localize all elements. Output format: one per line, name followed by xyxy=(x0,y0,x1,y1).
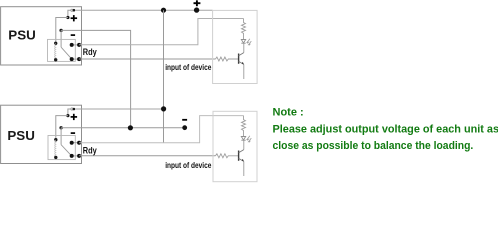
svg-text:Rdy: Rdy xyxy=(83,145,97,155)
relay K1 coil top dot xyxy=(54,42,57,45)
wire: vertical from + rail to bottom section xyxy=(163,10,165,143)
device 1 box xyxy=(213,10,258,83)
device 2 box xyxy=(213,111,257,181)
relay K1 box xyxy=(48,39,76,61)
node: junction dot + rail U2 xyxy=(161,106,166,111)
node: junction on + rail xyxy=(161,8,166,13)
relay K1 coil xyxy=(55,44,56,60)
PSU U1 + terminal circle xyxy=(71,9,73,11)
resistor R1 (series base, device 1) xyxy=(216,57,239,61)
wire: PSU U2 + internal xyxy=(68,109,71,115)
wire: top + rail xyxy=(75,9,212,11)
wire: - bus to load - terminal xyxy=(61,127,185,129)
relay K1 bottom contacts xyxy=(72,58,79,60)
LED D1 xyxy=(241,40,245,44)
wire: + to relay coil K1 xyxy=(56,18,68,43)
PSU U2 + terminal dot xyxy=(73,108,76,111)
note text xyxy=(273,107,498,152)
wire: PSU U1 + internal xyxy=(68,10,71,16)
svg-text:PSU: PSU xyxy=(8,29,36,43)
svg-text:Please adjust output voltage o: Please adjust output voltage of each uni… xyxy=(273,123,498,135)
relay K1 coil bottom dot xyxy=(54,58,57,61)
relay K2 coil top dot xyxy=(54,138,57,141)
svg-text:input of device: input of device xyxy=(165,161,212,170)
svg-text:PSU: PSU xyxy=(7,129,35,143)
resistor R4 (device 2 top) xyxy=(242,116,246,137)
wire: PSU U2 - to relay arm xyxy=(60,128,62,145)
label: PSU U1 + symbol xyxy=(71,15,78,21)
transistor Q1 xyxy=(239,43,244,79)
relay K1 top contacts xyxy=(72,44,79,46)
PSU U2 + terminal circle xyxy=(71,108,73,110)
label: PSU U2 - symbol xyxy=(71,132,75,134)
wire: PSU U1 - to PSU U2 - bus xyxy=(61,30,131,127)
node: PSU U2 - junction dot xyxy=(59,126,62,129)
relay K2 top contacts xyxy=(72,142,79,144)
relay K2 coil xyxy=(55,140,56,157)
label: load + symbol xyxy=(194,0,201,6)
relay K2 box xyxy=(48,136,75,160)
relay K2 bottom contacts xyxy=(72,155,79,157)
wire: + to relay coil K2 xyxy=(56,116,68,139)
node: junction dot on - bus xyxy=(128,125,133,130)
transistor Q2 xyxy=(239,140,244,176)
wire: relay K1 to input of device 1 xyxy=(79,58,215,60)
svg-text:input of device: input of device xyxy=(165,63,212,72)
LED D2 xyxy=(241,137,245,141)
relay K1 switch arm xyxy=(61,47,71,59)
wire: relay K1 contact to device 1 supply xyxy=(79,19,243,45)
wire: PSU U2 + rail xyxy=(75,108,163,110)
wire: relay K2 contact to device 2 supply xyxy=(79,116,243,143)
label: load - symbol xyxy=(182,119,187,121)
wire: PSU U1 - to relay arm xyxy=(60,30,62,47)
PSU U1 + terminal dot xyxy=(73,9,76,12)
label: PSU U1 - symbol xyxy=(71,34,75,36)
label: PSU U2 + symbol xyxy=(71,114,78,120)
relay K2 switch arm xyxy=(61,145,71,156)
PSU U1 box xyxy=(1,7,82,65)
node: PSU U2 + junction dot xyxy=(66,114,69,117)
LED D1 light arrows xyxy=(247,39,251,46)
node: PSU U1 + junction dot xyxy=(66,16,69,19)
wire: relay K2 to input of device 2 xyxy=(79,155,215,157)
node: load + terminal dot xyxy=(194,7,199,12)
node: load - terminal dot xyxy=(182,125,187,130)
node: PSU U1 - junction dot xyxy=(59,29,62,32)
resistor R2 (device 1 top) xyxy=(242,19,246,40)
svg-text:Note :: Note : xyxy=(273,107,304,119)
svg-text:close as possible to balance t: close as possible to balance the loading… xyxy=(273,140,474,152)
relay K2 coil bottom dot xyxy=(54,156,57,159)
resistor R3 (series base, device 2) xyxy=(216,154,239,158)
LED D2 light arrows xyxy=(247,136,251,143)
PSU U2 box xyxy=(1,105,82,163)
svg-text:Rdy: Rdy xyxy=(83,47,97,57)
